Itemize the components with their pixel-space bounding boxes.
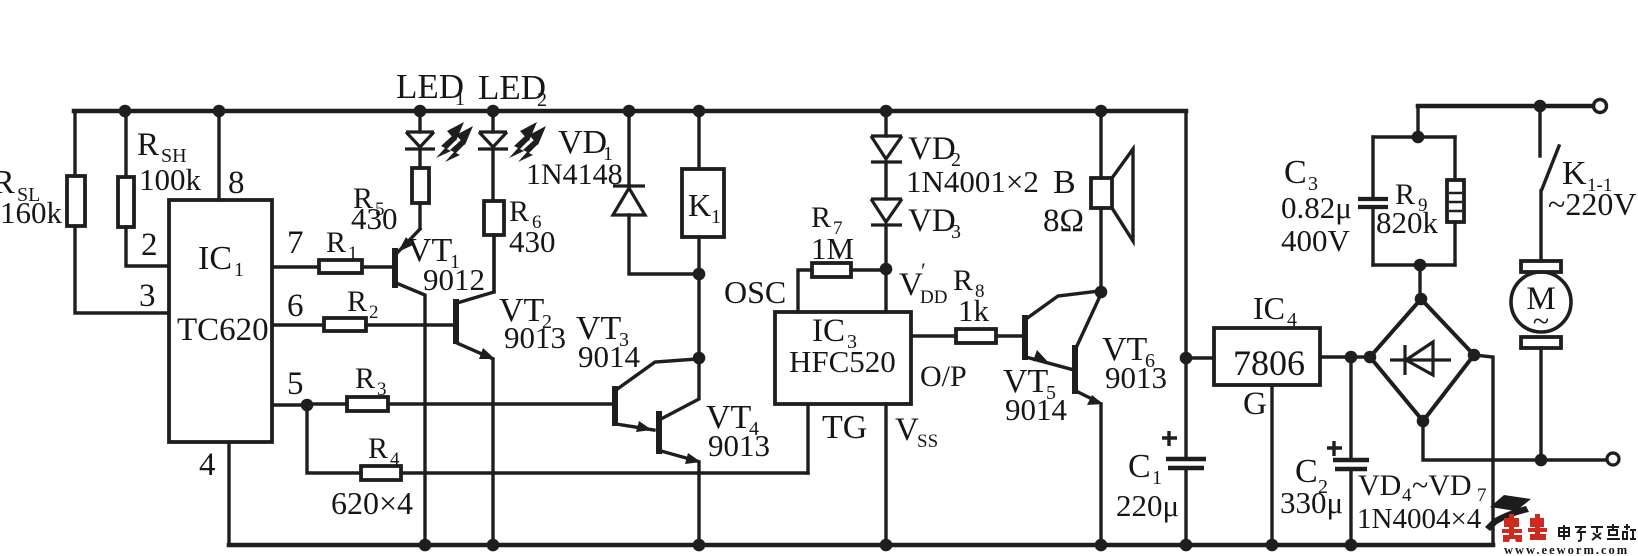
svg-text:9014: 9014 [578, 339, 641, 374]
node motor bottom junction [1535, 454, 1548, 467]
diode VD3 1N4001 [871, 199, 961, 269]
pin 5 label [287, 366, 304, 402]
wire bottom ground rail [229, 543, 1493, 548]
svg-text:1k: 1k [958, 293, 990, 328]
transistor Q1 VT1 9012 [395, 229, 485, 545]
svg-text:G: G [1243, 386, 1267, 422]
node speaker collector junction [1095, 286, 1108, 299]
svg-text:TG: TG [822, 409, 867, 446]
wire C3R9 frame [1373, 137, 1455, 265]
svg-text:9013: 9013 [1105, 360, 1167, 395]
node pin8 rail junction [213, 105, 226, 118]
LED LED2 [478, 68, 547, 201]
capacitor C2 330u [1280, 357, 1369, 545]
relay K1 [682, 111, 724, 274]
node VD1 rail junction [623, 105, 636, 118]
svg-text:1M: 1M [811, 231, 854, 266]
svg-text:DD: DD [920, 287, 947, 308]
svg-text:HFC520: HFC520 [789, 344, 896, 379]
svg-text:LED: LED [478, 68, 546, 107]
svg-text:0.82μ: 0.82μ [1281, 190, 1352, 225]
svg-text:R: R [811, 201, 831, 234]
resistor R3 [307, 362, 612, 411]
svg-text:7: 7 [287, 225, 304, 261]
resistor R2 [272, 285, 453, 331]
value label 1N4004x4 [1357, 503, 1482, 535]
node speaker rail junction [1095, 105, 1108, 118]
resistor R8 1k [911, 264, 1024, 343]
svg-text:VD: VD [908, 203, 956, 239]
node bridge right [1468, 349, 1481, 362]
diode VD2 1N4001 [871, 111, 961, 199]
svg-text:www.eeworm.com: www.eeworm.com [1504, 543, 1629, 556]
resistor RSH [118, 111, 202, 266]
wire pin 8 [219, 111, 245, 201]
pin TG wire [808, 404, 867, 473]
regulator IC4 7806 [1186, 290, 1370, 385]
svg-text:C: C [1284, 154, 1307, 191]
terminal mains bottom [1607, 453, 1619, 465]
svg-text:O/P: O/P [920, 360, 967, 393]
value label VD4-VD7 [1358, 469, 1487, 506]
wire VDD to IC3 [884, 269, 887, 312]
pin G wire [1243, 385, 1272, 545]
svg-text:1: 1 [348, 243, 358, 264]
node VT6 emitter ground junction [1095, 539, 1108, 552]
svg-text:R: R [368, 432, 388, 465]
diode VD1 1N4148 [526, 111, 699, 274]
pin 3 label [139, 278, 156, 314]
op-amp U3 IC3 HFC520 body [775, 312, 911, 404]
switch K1-1 [1540, 106, 1636, 261]
svg-text:VD: VD [558, 124, 607, 161]
capacitor C1 220u [1116, 431, 1206, 545]
svg-text:7806: 7806 [1233, 343, 1305, 383]
node bridge left [1364, 351, 1377, 364]
svg-text:9013: 9013 [708, 428, 770, 463]
svg-text:820k: 820k [1376, 205, 1439, 240]
watermark cap logo [1485, 495, 1531, 531]
transistor Q2 VT2 9013 [456, 235, 566, 545]
svg-text:K: K [688, 187, 711, 223]
pin 2 label [141, 227, 158, 263]
watermark site name glyphs [1559, 524, 1636, 541]
svg-text:9013: 9013 [504, 320, 566, 355]
svg-text:330μ: 330μ [1280, 485, 1343, 520]
svg-text:9012: 9012 [423, 262, 485, 297]
svg-text:IC: IC [198, 240, 232, 277]
svg-text:1: 1 [234, 259, 244, 281]
pin 7 label [287, 225, 304, 261]
wire top supply rail [74, 109, 1186, 114]
wire bridge right to ground rail [1474, 355, 1493, 545]
svg-text:430: 430 [351, 201, 398, 236]
transistor Q6 VT6 9013 [1075, 294, 1167, 545]
transistor Q4 VT4 9013 [659, 358, 770, 545]
svg-text:V: V [895, 412, 919, 448]
svg-text:2: 2 [369, 302, 379, 323]
value label 620x4 [331, 485, 413, 521]
svg-text:1: 1 [455, 88, 465, 110]
node RSH top junction [119, 105, 132, 118]
transistor Q5 VT5 9014 [1003, 291, 1099, 427]
svg-text:3: 3 [377, 379, 387, 400]
node C2 top junction [1345, 351, 1358, 364]
svg-text:2: 2 [141, 227, 158, 263]
svg-text:4: 4 [199, 447, 216, 483]
svg-text:C: C [1128, 448, 1151, 485]
wire pin 4 to ground rail [227, 442, 230, 545]
LED2 emission arrows [509, 122, 546, 162]
pin VDD' label [899, 258, 947, 308]
node pin5 junction [301, 399, 314, 412]
node K1 VD1 junction [693, 268, 706, 281]
svg-text:430: 430 [509, 224, 556, 259]
svg-text:R: R [347, 285, 367, 318]
svg-text:5: 5 [287, 366, 304, 402]
svg-text:VD: VD [1358, 469, 1401, 502]
svg-text:620×4: 620×4 [331, 485, 413, 521]
svg-text:8Ω: 8Ω [1043, 203, 1084, 239]
svg-text:8: 8 [228, 165, 245, 201]
LED1 emission arrows [436, 122, 473, 162]
wire to bridge top [1418, 265, 1421, 299]
wire mains drop to C3R9 [1416, 106, 1419, 137]
svg-text:1: 1 [1152, 467, 1162, 489]
motor M [1511, 261, 1571, 460]
svg-text:~220V: ~220V [1548, 186, 1636, 222]
node VSS ground junction [880, 539, 893, 552]
node VT3 collector junction [693, 352, 706, 365]
svg-text:~: ~ [1533, 305, 1549, 338]
speaker B 8ohm [1043, 111, 1133, 292]
svg-text:′: ′ [921, 258, 926, 283]
svg-text:4: 4 [390, 449, 400, 470]
svg-text:B: B [1053, 164, 1076, 201]
terminal mains top [1594, 100, 1607, 113]
svg-text:9014: 9014 [1005, 392, 1068, 427]
node VDD junction [880, 263, 893, 276]
wire mains top rail [1418, 104, 1593, 109]
resistor RSL [0, 111, 169, 313]
pin O/P label [920, 360, 967, 393]
node C1 ground junction [1180, 539, 1193, 552]
node C3R9 top junction [1412, 131, 1425, 144]
node VT2 emitter ground junction [487, 539, 500, 552]
svg-text:1N4001×2: 1N4001×2 [906, 164, 1039, 199]
LED LED1 [396, 67, 465, 168]
value label 1N4001x2 [906, 164, 1039, 199]
node LED1 rail junction [414, 105, 427, 118]
node C3R9 bottom junction [1414, 259, 1427, 272]
svg-text:6: 6 [287, 288, 304, 324]
pin VSS wire [886, 404, 938, 545]
svg-text:R: R [137, 127, 159, 163]
pin OSC label [724, 274, 786, 310]
svg-text:VD: VD [908, 131, 956, 167]
pin 6 label [287, 288, 304, 324]
svg-text:R: R [355, 362, 375, 395]
node VD2 rail junction [880, 105, 893, 118]
wire K1 to VT3 collector [697, 274, 700, 358]
svg-text:SS: SS [917, 431, 938, 452]
svg-text:LED: LED [396, 67, 464, 106]
op-amp U1 IC1 TC620 body [169, 200, 272, 442]
wire right supply drop [1184, 111, 1187, 457]
wire bridge bottom to motor line [1423, 421, 1606, 460]
node C1 top junction [1180, 352, 1193, 365]
resistor R9 820k [1376, 137, 1464, 265]
node bridge bottom [1417, 415, 1430, 428]
svg-text:160k: 160k [0, 195, 63, 230]
svg-text:400V: 400V [1281, 223, 1351, 258]
wire pin 5 [272, 403, 307, 406]
node LED2 rail junction [487, 105, 500, 118]
svg-text:4: 4 [1287, 309, 1297, 331]
capacitor C3 0.82u 400V [1281, 137, 1388, 265]
bridge rectifier VD4-VD7 [1370, 299, 1474, 421]
node K1-1 rail junction [1534, 100, 1547, 113]
svg-text:100k: 100k [139, 162, 202, 197]
resistor R7 1M [798, 201, 886, 312]
node VT1 collector ground junction [419, 539, 432, 552]
svg-text:TC620: TC620 [177, 312, 269, 348]
svg-text:1N4148: 1N4148 [526, 158, 623, 191]
node bridge top [1415, 293, 1428, 306]
watermark chongchong red text [1502, 514, 1547, 542]
svg-text:3: 3 [139, 278, 156, 314]
svg-text:~VD: ~VD [1412, 469, 1472, 502]
svg-text:1N4004×4: 1N4004×4 [1357, 503, 1482, 535]
svg-text:1: 1 [711, 206, 721, 228]
pin 4 label [199, 447, 216, 483]
svg-text:220μ: 220μ [1116, 488, 1179, 523]
svg-text:R: R [326, 226, 346, 259]
resistor R4 [307, 405, 808, 480]
node K1 rail junction [693, 105, 706, 118]
svg-text:2: 2 [537, 89, 547, 111]
resistor R1 [272, 226, 392, 273]
resistor R5 [351, 168, 429, 236]
watermark url text [1504, 543, 1629, 556]
node G ground junction [1266, 539, 1279, 552]
svg-text:IC: IC [1253, 290, 1285, 326]
node C2 ground junction [1345, 539, 1358, 552]
svg-text:OSC: OSC [724, 274, 786, 310]
node VT4 emitter ground junction [693, 539, 706, 552]
svg-text:3: 3 [951, 221, 961, 243]
resistor R6 [484, 195, 556, 292]
transistor Q3 VT3 9014 [576, 310, 697, 432]
